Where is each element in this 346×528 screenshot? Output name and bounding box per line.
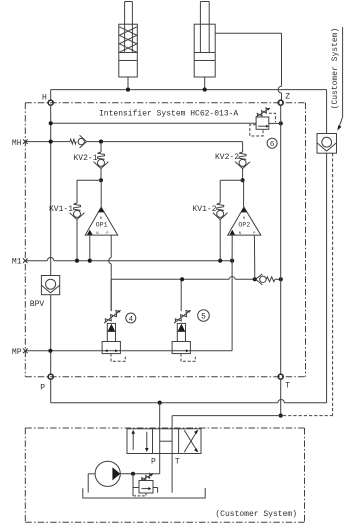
svg-text:P: P [151, 457, 156, 466]
svg-text:N: N [96, 232, 98, 236]
svg-text:OP2: OP2 [238, 221, 250, 228]
svg-text:N: N [239, 232, 241, 236]
svg-text:KV2-1: KV2-1 [73, 154, 97, 163]
svg-text:KV1-2: KV1-2 [192, 205, 216, 214]
svg-text:4: 4 [129, 316, 134, 324]
svg-text:MP: MP [12, 348, 22, 357]
svg-text:KV2-2: KV2-2 [215, 153, 239, 162]
svg-text:KV1-1: KV1-1 [49, 205, 73, 214]
svg-text:6: 6 [270, 141, 274, 149]
svg-text:5: 5 [201, 314, 206, 322]
svg-text:T: T [175, 457, 180, 466]
svg-text:(Customer System): (Customer System) [215, 510, 297, 519]
svg-text:M1: M1 [12, 257, 22, 266]
svg-text:T: T [285, 382, 290, 391]
svg-text:MH: MH [12, 139, 22, 148]
svg-text:P: P [40, 383, 45, 392]
svg-text:P: P [106, 232, 108, 236]
svg-text:(Customer System): (Customer System) [331, 28, 340, 110]
svg-text:Z: Z [285, 93, 290, 102]
svg-text:BPV: BPV [30, 300, 45, 309]
svg-text:H: H [42, 93, 47, 102]
svg-text:Intensifier System HC62-013-A: Intensifier System HC62-013-A [99, 109, 238, 118]
svg-text:OP1: OP1 [96, 221, 108, 228]
